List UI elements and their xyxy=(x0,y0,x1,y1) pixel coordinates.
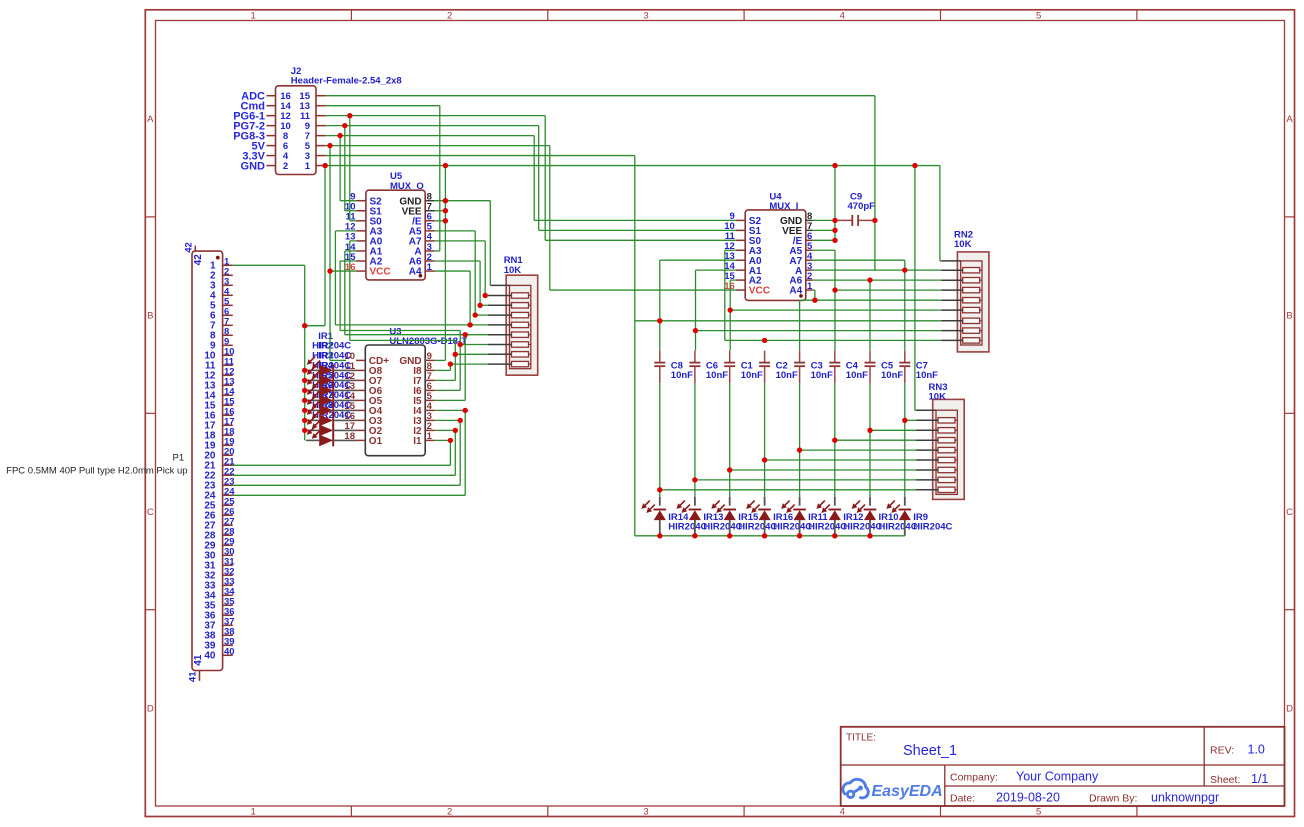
svg-text:P1: P1 xyxy=(173,452,185,463)
svg-text:1: 1 xyxy=(251,807,256,818)
svg-text:C: C xyxy=(1286,507,1293,518)
svg-text:B: B xyxy=(147,311,153,322)
svg-text:10nF: 10nF xyxy=(846,370,868,381)
svg-text:2019-08-20: 2019-08-20 xyxy=(996,791,1060,805)
svg-text:HIR204C: HIR204C xyxy=(668,522,707,533)
svg-text:5: 5 xyxy=(1036,807,1041,818)
svg-text:1: 1 xyxy=(427,262,433,273)
svg-text:unknownpgr: unknownpgr xyxy=(1151,791,1219,805)
svg-text:HIR204C: HIR204C xyxy=(773,522,812,533)
svg-text:1.0: 1.0 xyxy=(1248,743,1265,757)
svg-text:3: 3 xyxy=(643,10,648,21)
svg-text:MUX_O: MUX_O xyxy=(390,181,424,192)
svg-text:GND: GND xyxy=(241,160,266,172)
svg-text:REV:: REV: xyxy=(1210,745,1234,757)
svg-text:Company:: Company: xyxy=(950,772,998,784)
svg-text:1: 1 xyxy=(305,161,311,172)
svg-text:10K: 10K xyxy=(954,239,972,250)
svg-text:TITLE:: TITLE: xyxy=(846,733,876,744)
svg-text:MUX_I: MUX_I xyxy=(769,201,798,212)
svg-text:B: B xyxy=(1286,311,1292,322)
svg-text:2: 2 xyxy=(447,807,452,818)
svg-text:HIR204C: HIR204C xyxy=(879,522,918,533)
svg-text:D: D xyxy=(147,703,154,714)
svg-text:C: C xyxy=(147,507,154,518)
svg-text:HIR204C: HIR204C xyxy=(738,522,777,533)
svg-text:VCC: VCC xyxy=(749,286,770,297)
svg-text:HIR204C: HIR204C xyxy=(843,522,882,533)
svg-text:40: 40 xyxy=(224,646,235,657)
svg-text:10nF: 10nF xyxy=(671,370,693,381)
svg-text:3: 3 xyxy=(643,807,648,818)
svg-text:1: 1 xyxy=(807,281,813,292)
svg-text:I1: I1 xyxy=(413,436,422,447)
svg-text:1: 1 xyxy=(251,10,256,21)
svg-text:1/1: 1/1 xyxy=(1251,772,1268,786)
svg-text:470pF: 470pF xyxy=(848,201,876,212)
svg-text:10K: 10K xyxy=(504,265,522,276)
svg-text:HIR204C: HIR204C xyxy=(808,522,847,533)
svg-text:HIR204C: HIR204C xyxy=(913,522,952,533)
svg-text:EasyEDA: EasyEDA xyxy=(872,783,943,800)
svg-text:VCC: VCC xyxy=(370,267,391,278)
svg-text:Header-Female-2.54_2x8: Header-Female-2.54_2x8 xyxy=(291,76,402,87)
svg-text:10nF: 10nF xyxy=(916,370,938,381)
svg-text:10nF: 10nF xyxy=(706,370,728,381)
svg-text:D: D xyxy=(1286,703,1293,714)
svg-text:O1: O1 xyxy=(369,436,383,447)
svg-text:Date:: Date: xyxy=(950,793,975,805)
svg-text:1: 1 xyxy=(427,431,433,442)
svg-text:4: 4 xyxy=(840,10,845,21)
svg-text:41: 41 xyxy=(193,654,204,666)
svg-text:10nF: 10nF xyxy=(741,370,763,381)
svg-text:40: 40 xyxy=(204,651,216,662)
svg-text:4: 4 xyxy=(840,807,845,818)
svg-text:10nF: 10nF xyxy=(811,370,833,381)
svg-text:10K: 10K xyxy=(929,392,947,403)
svg-text:Your Company: Your Company xyxy=(1016,770,1099,784)
svg-text:10nF: 10nF xyxy=(776,370,798,381)
svg-text:A: A xyxy=(1286,114,1293,125)
svg-text:2: 2 xyxy=(447,10,452,21)
svg-text:10nF: 10nF xyxy=(881,370,903,381)
svg-text:FPC 0.5MM 40P Pull type H2.0mm: FPC 0.5MM 40P Pull type H2.0mm Pick up xyxy=(6,466,187,477)
svg-text:Sheet:: Sheet: xyxy=(1210,774,1240,786)
svg-text:41: 41 xyxy=(187,671,198,682)
svg-text:Sheet_1: Sheet_1 xyxy=(903,743,957,759)
svg-text:2: 2 xyxy=(283,161,288,172)
svg-text:42: 42 xyxy=(193,254,204,266)
svg-text:HIR204C: HIR204C xyxy=(703,522,742,533)
svg-text:Drawn By:: Drawn By: xyxy=(1089,793,1137,805)
svg-text:A: A xyxy=(147,114,154,125)
svg-text:42: 42 xyxy=(184,242,195,253)
svg-text:5: 5 xyxy=(1036,10,1041,21)
